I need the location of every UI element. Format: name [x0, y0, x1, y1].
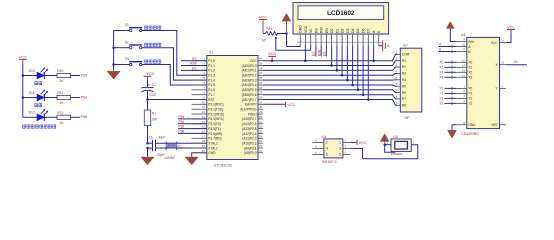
- svg-text:D11: D11: [29, 91, 35, 95]
- wire LCD D5 to P0.5: [357, 45, 360, 91]
- svg-text:4: 4: [326, 147, 328, 151]
- svg-text:16: 16: [501, 39, 505, 43]
- net label Y0: [439, 86, 443, 90]
- svg-text:20: 20: [202, 149, 206, 153]
- wire S2 to U1: [142, 48, 207, 80]
- wire LCD A to VCC row: [372, 45, 375, 62]
- wire V0 down: [310, 45, 312, 50]
- svg-text:XTAL2: XTAL2: [208, 141, 218, 145]
- svg-text:P1.0: P1.0: [208, 59, 215, 63]
- svg-text:P1.7: P1.7: [208, 93, 215, 97]
- svg-text:GND: GND: [299, 25, 303, 33]
- resistor R11 1K: [57, 91, 71, 105]
- net label X0: [439, 60, 443, 64]
- wire LCD D7 to P0.7: [367, 45, 370, 100]
- wire to LED D11: [23, 97, 37, 99]
- wire S1 to U1: [142, 31, 207, 76]
- svg-text:R7: R7: [402, 97, 406, 101]
- svg-text:EN: EN: [325, 28, 329, 33]
- svg-text:P3.7(RD): P3.7(RD): [208, 137, 221, 141]
- svg-text:Y0: Y0: [439, 86, 443, 90]
- wire switch common rail: [113, 31, 115, 71]
- svg-text:P56: P56: [178, 130, 184, 134]
- svg-text:6: 6: [326, 153, 328, 157]
- svg-text:(AD5)P0.5: (AD5)P0.5: [242, 88, 257, 92]
- wire P53 stub: [178, 118, 207, 120]
- svg-text:GND: GND: [468, 123, 476, 127]
- net label Y2: [439, 96, 443, 100]
- svg-text:P3.4(T0): P3.4(T0): [208, 122, 220, 126]
- crystal Y1 12MHZ: [164, 142, 182, 160]
- svg-text:B: B: [468, 50, 470, 54]
- svg-text:Y0: Y0: [468, 87, 472, 91]
- wire LCD RS: [315, 45, 317, 56]
- svg-text:VCC: VCC: [304, 25, 308, 33]
- LCD module LCD1602: [293, 3, 389, 34]
- svg-text:C27: C27: [147, 147, 153, 151]
- svg-text:P3.1(TXD): P3.1(TXD): [208, 108, 223, 112]
- svg-text:EN: EN: [192, 67, 197, 71]
- power VCC (LED supply): [19, 54, 28, 63]
- svg-text:10: 10: [202, 100, 206, 104]
- svg-text:40: 40: [259, 57, 263, 61]
- svg-text:VEE: VEE: [491, 123, 497, 127]
- label 绿色 (chinese): [35, 104, 42, 107]
- LED D10: [29, 68, 48, 80]
- ground (U1): [185, 157, 198, 165]
- svg-text:VCC: VCC: [287, 103, 295, 107]
- svg-text:P1.6: P1.6: [208, 88, 215, 92]
- svg-text:VCC: VCC: [268, 52, 276, 56]
- svg-text:(AD4)P0.4: (AD4)P0.4: [242, 83, 257, 87]
- wire U5 pin2 loop: [385, 145, 395, 153]
- svg-text:15: 15: [202, 125, 206, 129]
- svg-text:U5: U5: [393, 135, 397, 139]
- wire U1 GND: [192, 153, 207, 157]
- svg-text:32: 32: [259, 96, 263, 100]
- switch S2: [114, 40, 143, 49]
- svg-text:P3.0(RXD): P3.0(RXD): [208, 103, 223, 107]
- svg-text:19: 19: [202, 144, 206, 148]
- svg-text:P3.6(WR): P3.6(WR): [208, 132, 222, 136]
- ground arrow (U3 GND): [448, 130, 457, 138]
- svg-text:VCC: VCC: [19, 54, 28, 59]
- wire RST to U1 pin9: [148, 99, 207, 101]
- power VCC (U4): [357, 140, 367, 145]
- net label R/W: [190, 62, 197, 66]
- net label EN (rotated): [323, 51, 327, 56]
- svg-text:(A13)P2.5: (A13)P2.5: [242, 127, 257, 131]
- svg-text:R10: R10: [57, 69, 63, 73]
- svg-text:(A14)P2.6: (A14)P2.6: [242, 122, 257, 126]
- net label X3: [439, 75, 443, 79]
- svg-text:24: 24: [259, 134, 263, 138]
- wire VCC row: [263, 60, 391, 62]
- junction S2: [112, 46, 115, 49]
- svg-text:U4: U4: [322, 135, 326, 139]
- wire P0.6 bus: [263, 94, 391, 96]
- ground arrow (U3 INH): [446, 21, 455, 28]
- net label P54: [178, 120, 184, 124]
- svg-text:36: 36: [259, 76, 263, 80]
- svg-text:35: 35: [259, 81, 263, 85]
- svg-text:X0: X0: [514, 60, 518, 64]
- wire EN to U1: [181, 69, 207, 71]
- svg-text:(A10)P2.2: (A10)P2.2: [242, 141, 257, 145]
- net label RS: [192, 57, 197, 61]
- svg-text:S2: S2: [125, 40, 129, 44]
- ground arrow (LCD GND): [282, 14, 291, 47]
- wire net B: [439, 50, 457, 54]
- svg-text:R1: R1: [152, 111, 156, 115]
- svg-text:(AD2)P0.2: (AD2)P0.2: [242, 74, 257, 78]
- IC U1 STC89C52: [192, 50, 264, 167]
- wire LED to resistor: [44, 97, 57, 99]
- svg-text:(AD1)P0.1: (AD1)P0.1: [242, 69, 257, 73]
- wire LCD D0 to P0.0: [330, 45, 333, 66]
- svg-text:XTAL1: XTAL1: [208, 146, 218, 150]
- svg-text:1: 1: [339, 141, 341, 145]
- wire P0.5 bus: [263, 89, 391, 91]
- wire to LED D10: [23, 75, 37, 77]
- wire net X1: [445, 66, 457, 70]
- junction XTAL2 cap: [146, 142, 149, 145]
- wire net X0: [445, 61, 457, 65]
- svg-text:RS: RS: [314, 27, 318, 33]
- svg-text:R8: R8: [402, 104, 406, 108]
- net label R/W (rotated): [318, 49, 322, 56]
- svg-text:18: 18: [202, 139, 206, 143]
- resistor network R7 SIP: [391, 44, 422, 120]
- svg-text:11: 11: [462, 73, 465, 77]
- junction RST node: [146, 98, 149, 101]
- junction LED row1: [22, 74, 25, 77]
- svg-text:33: 33: [259, 91, 263, 95]
- svg-text:34: 34: [259, 86, 263, 90]
- label 红色 (chinese): [35, 82, 42, 85]
- junction GND arrow node: [285, 32, 288, 35]
- svg-text:D5: D5: [356, 28, 360, 33]
- net label P55: [81, 73, 87, 77]
- svg-text:EN: EN: [323, 51, 327, 56]
- svg-text:C26: C26: [147, 135, 153, 139]
- svg-text:D0: D0: [330, 28, 334, 33]
- wire P56 stub: [178, 132, 207, 134]
- svg-text:5: 5: [339, 153, 341, 157]
- svg-text:LCD1602: LCD1602: [327, 10, 355, 17]
- svg-text:VCC: VCC: [259, 15, 267, 19]
- svg-text:(A9)P2.1: (A9)P2.1: [244, 146, 257, 150]
- wire LCD D2 to P0.2: [341, 45, 344, 76]
- wire LCD D4 to P0.4: [351, 45, 354, 86]
- svg-text:P3.5(T1): P3.5(T1): [208, 127, 220, 131]
- svg-text:P56: P56: [81, 115, 87, 119]
- junction S3: [112, 63, 115, 66]
- svg-text:25: 25: [259, 129, 263, 133]
- power VCC (reset): [144, 71, 155, 80]
- svg-text:P1.3: P1.3: [208, 74, 215, 78]
- svg-text:30pF: 30pF: [157, 153, 165, 157]
- svg-text:R/W: R/W: [190, 62, 197, 66]
- svg-text:P3.2(INT0): P3.2(INT0): [208, 112, 224, 116]
- svg-text:Y1: Y1: [439, 91, 443, 95]
- capacitor C26 30pF: [147, 135, 207, 146]
- svg-text:COM: COM: [402, 53, 410, 57]
- svg-text:CD4052BC: CD4052BC: [461, 132, 479, 136]
- svg-text:X1: X1: [468, 66, 472, 70]
- net label A: [439, 43, 442, 47]
- net label P54: [81, 95, 87, 99]
- svg-text:R5: R5: [402, 84, 406, 88]
- svg-text:17: 17: [202, 134, 206, 138]
- svg-text:P55: P55: [81, 73, 87, 77]
- svg-text:23: 23: [259, 139, 263, 143]
- wire LCD EN: [325, 45, 327, 56]
- wire net Y0: [445, 87, 457, 91]
- wire RP1 wiper to V0: [276, 49, 311, 51]
- svg-text:(A15)P2.7: (A15)P2.7: [242, 117, 257, 121]
- svg-text:R3: R3: [402, 72, 406, 76]
- svg-text:R12: R12: [57, 111, 63, 115]
- svg-text:D3: D3: [346, 28, 350, 33]
- svg-text:X0: X0: [468, 61, 472, 65]
- wire net X2: [445, 71, 457, 75]
- wire net Y3: [445, 102, 457, 106]
- svg-text:1K: 1K: [60, 121, 65, 125]
- net label P55: [178, 125, 184, 129]
- svg-text:EA/VPP: EA/VPP: [245, 103, 257, 107]
- svg-text:V0: V0: [309, 29, 313, 33]
- label 双色或者三色发光 (chinese): [23, 125, 56, 128]
- net label X0 (U3 X): [514, 60, 518, 64]
- capacitor C27 30pF: [147, 145, 207, 157]
- potentiometer RP1: [262, 27, 279, 50]
- svg-text:SW DIP-3: SW DIP-3: [322, 160, 337, 164]
- net label B: [439, 48, 442, 52]
- svg-text:P1.2: P1.2: [208, 69, 215, 73]
- junction XTAL1 cap: [146, 147, 149, 150]
- LED D12: [29, 109, 48, 121]
- switch S1: [114, 23, 143, 32]
- wire P55 stub: [178, 128, 207, 130]
- svg-text:D2: D2: [341, 28, 345, 33]
- svg-text:22: 22: [259, 144, 263, 148]
- junction LED row2: [22, 96, 25, 99]
- wire LCD GND pin: [287, 45, 301, 46]
- svg-text:D4: D4: [351, 28, 355, 33]
- svg-text:Y2: Y2: [439, 96, 443, 100]
- svg-text:P3.3(INT1): P3.3(INT1): [208, 117, 224, 121]
- svg-text:14: 14: [202, 120, 206, 124]
- wire resistor to net label: [71, 75, 81, 77]
- svg-text:12: 12: [202, 110, 206, 114]
- wire U3 VCC: [506, 30, 511, 43]
- svg-text:12MHZ: 12MHZ: [164, 156, 175, 160]
- svg-text:D6: D6: [362, 28, 366, 33]
- svg-text:X1: X1: [439, 65, 443, 69]
- wire LCD R/W: [320, 45, 322, 56]
- label switch S3 (chinese): [145, 60, 161, 63]
- wire to LED D12: [23, 116, 37, 118]
- wire LED to resistor: [44, 75, 57, 77]
- svg-text:(AD7)P0.7: (AD7)P0.7: [242, 98, 257, 102]
- svg-text:RST: RST: [208, 98, 214, 102]
- svg-text:D10: D10: [29, 69, 35, 73]
- LCD pin stubs: [298, 34, 382, 45]
- svg-text:R/W: R/W: [318, 49, 322, 56]
- svg-text:10: 10: [262, 38, 266, 42]
- svg-text:31: 31: [259, 100, 263, 104]
- ground arrow (U5): [380, 134, 389, 145]
- svg-text:R4: R4: [402, 78, 406, 82]
- net label X1: [439, 65, 443, 69]
- resistor R10 1K: [57, 69, 71, 83]
- wire LCD D1 to P0.1: [336, 45, 339, 71]
- svg-text:10K: 10K: [151, 118, 158, 122]
- svg-text:C1: C1: [152, 83, 156, 87]
- svg-text:GND: GND: [208, 151, 216, 155]
- wire R/W to U1: [181, 65, 207, 67]
- net label X2: [439, 70, 443, 74]
- svg-text:37: 37: [259, 71, 263, 75]
- svg-text:U3: U3: [461, 33, 465, 37]
- svg-text:(A8)P2.0: (A8)P2.0: [244, 151, 257, 155]
- svg-text:Y3: Y3: [439, 101, 443, 105]
- power VCC (U1 pin40): [268, 52, 276, 62]
- svg-text:VCC: VCC: [491, 41, 498, 45]
- wire P0.1 bus: [263, 69, 391, 71]
- svg-text:3: 3: [339, 147, 341, 151]
- wire INH to ground: [450, 29, 456, 42]
- resistor R1 10K: [144, 100, 158, 144]
- wire U4 pin3 loop to U5: [351, 145, 418, 159]
- svg-text:10uF: 10uF: [149, 93, 157, 97]
- svg-text:SIP: SIP: [404, 116, 410, 120]
- svg-text:26: 26: [259, 125, 263, 129]
- net label P56: [81, 115, 87, 119]
- wire VCC rail to LEDs: [22, 64, 24, 118]
- svg-text:RW: RW: [320, 27, 324, 33]
- ground (switch common): [107, 71, 120, 79]
- net label Y1: [439, 91, 443, 95]
- wire LCD VCC pin: [304, 45, 307, 62]
- svg-text:P1.1: P1.1: [208, 64, 215, 68]
- wire resistor to net label: [71, 97, 81, 99]
- svg-text:X3: X3: [439, 75, 443, 79]
- svg-text:R11: R11: [57, 91, 63, 95]
- svg-text:ALE/PROG: ALE/PROG: [240, 108, 257, 112]
- svg-text:P54: P54: [81, 95, 87, 99]
- svg-text:Y1: Y1: [468, 92, 472, 96]
- svg-text:R1: R1: [402, 59, 406, 63]
- svg-text:PSEN: PSEN: [248, 112, 257, 116]
- svg-text:1K: 1K: [60, 101, 65, 105]
- svg-text:(A12)P2.4: (A12)P2.4: [242, 132, 257, 136]
- wire U3 X output: [506, 64, 527, 66]
- svg-text:(AD0)P0.0: (AD0)P0.0: [242, 64, 257, 68]
- svg-text:R6: R6: [402, 91, 406, 95]
- wire net X3: [445, 76, 457, 80]
- power VCC (contrast): [259, 15, 267, 33]
- svg-text:X2: X2: [468, 71, 472, 75]
- svg-text:13: 13: [202, 115, 206, 119]
- svg-text:21: 21: [259, 149, 263, 153]
- svg-text:14: 14: [462, 63, 466, 67]
- svg-text:RS: RS: [312, 51, 316, 56]
- svg-text:VCC: VCC: [146, 71, 155, 76]
- svg-text:15: 15: [462, 68, 466, 72]
- ground (LCD backlight K): [379, 40, 388, 51]
- power module U5: [387, 135, 415, 156]
- wire P54 stub: [178, 123, 207, 125]
- wire P0.0 bus: [263, 65, 391, 67]
- svg-text:+: +: [148, 83, 150, 87]
- svg-text:X0: X0: [439, 60, 443, 64]
- svg-text:13: 13: [501, 61, 505, 65]
- svg-text:28: 28: [259, 115, 263, 119]
- svg-text:(AD6)P0.6: (AD6)P0.6: [242, 93, 257, 97]
- power VCC (U3): [507, 25, 515, 33]
- svg-text:S1: S1: [125, 23, 129, 27]
- wire net A: [439, 45, 457, 49]
- wire EA/VPP to VCC: [263, 103, 286, 105]
- svg-text:10: 10: [462, 43, 466, 47]
- svg-text:30: 30: [259, 105, 263, 109]
- wire U5 pin2: [383, 143, 391, 146]
- svg-text:R2: R2: [402, 65, 406, 69]
- wire net Y2: [445, 97, 457, 101]
- svg-text:12: 12: [462, 58, 466, 62]
- ground (reset/xtal): [141, 157, 154, 165]
- svg-text:39: 39: [259, 62, 263, 66]
- svg-text:VCC: VCC: [250, 59, 257, 63]
- svg-text:INH: INH: [468, 40, 474, 44]
- wire U3 GND: [452, 125, 456, 131]
- wire LED to resistor: [44, 116, 57, 118]
- IC U3 CD4052BC: [456, 33, 506, 136]
- svg-text:D1: D1: [335, 28, 339, 33]
- svg-text:Y2: Y2: [468, 97, 472, 101]
- wire RS to U1: [181, 60, 207, 62]
- net label Y3: [439, 101, 443, 105]
- wire LCD D3 to P0.3: [346, 45, 349, 81]
- svg-text:VCC: VCC: [507, 25, 515, 29]
- wire P0.7 bus: [263, 99, 391, 101]
- label switch S2 (chinese): [145, 43, 161, 46]
- wire P0.2 bus: [263, 74, 391, 76]
- svg-text:P55: P55: [178, 125, 184, 129]
- svg-text:S3: S3: [125, 57, 129, 61]
- label switch S1 (chinese): [145, 26, 161, 29]
- svg-text:(A11)P2.3: (A11)P2.3: [242, 137, 256, 141]
- svg-text:2: 2: [326, 141, 328, 145]
- svg-text:D12: D12: [29, 111, 35, 115]
- wire P0.3 bus: [263, 79, 391, 81]
- wire U4 pin1 to VCC: [351, 141, 358, 143]
- svg-text:16: 16: [202, 129, 206, 133]
- wire RP1 to GND arrow: [279, 33, 287, 35]
- wire resistor to net label: [71, 116, 81, 118]
- svg-text:P1.5: P1.5: [208, 83, 215, 87]
- svg-text:U1: U1: [209, 50, 214, 54]
- net label P53: [178, 115, 184, 119]
- power VCC (EA pin): [286, 102, 296, 107]
- svg-text:(AD3)P0.3: (AD3)P0.3: [242, 78, 257, 82]
- svg-text:VCC: VCC: [359, 141, 367, 145]
- svg-text:30pF: 30pF: [158, 135, 166, 139]
- svg-text:RS: RS: [192, 57, 197, 61]
- switch S3: [114, 57, 143, 66]
